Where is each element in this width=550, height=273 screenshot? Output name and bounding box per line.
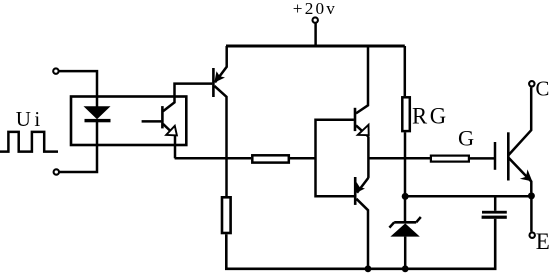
svg-text:C: C	[536, 77, 550, 100]
svg-text:RG: RG	[412, 103, 449, 128]
svg-text:+20v: +20v	[293, 0, 337, 18]
svg-text:E: E	[536, 229, 550, 254]
svg-text:Ui: Ui	[16, 107, 44, 131]
svg-text:G: G	[458, 126, 474, 151]
